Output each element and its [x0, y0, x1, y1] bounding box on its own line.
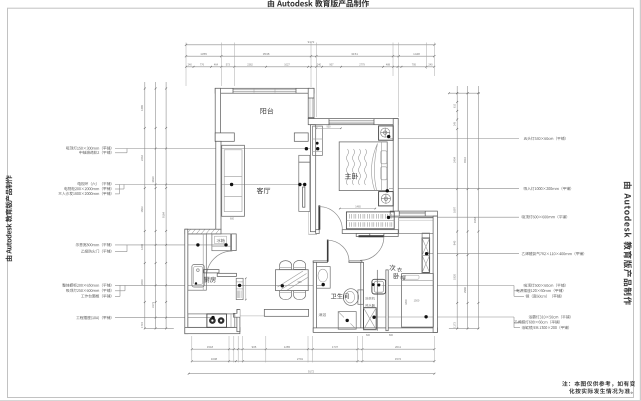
dining chairs — [280, 261, 292, 270]
window: second bedroom top — [399, 211, 425, 213]
svg-text:900: 900 — [327, 125, 332, 128]
svg-text:907: 907 — [329, 63, 334, 66]
wall: bathroom right — [361, 262, 364, 330]
bottom dimension row 3 overall — [189, 373, 435, 375]
svg-text:2011: 2011 — [395, 345, 401, 349]
wall: bathroom left — [313, 261, 316, 332]
right top mini dimension — [449, 92, 480, 94]
stove cooktop — [207, 314, 227, 327]
living room label 客厅 — [257, 187, 270, 193]
svg-text:1518: 1518 — [207, 345, 214, 349]
second bedroom labels 次卧/衣帽 — [389, 265, 395, 271]
svg-text:1500: 1500 — [414, 299, 420, 303]
door leaf: master bedroom door — [318, 205, 320, 229]
svg-text:2362: 2362 — [247, 63, 253, 66]
wall: second bedroom right — [433, 216, 437, 332]
hall cabinet (between kitchen and dining) — [236, 278, 243, 299]
kitchen label 厨房 — [204, 277, 216, 283]
pillows master bed — [381, 151, 387, 164]
door arc: corridor entry door — [360, 237, 384, 261]
left annotation labels — [66, 146, 111, 150]
wardrobe in master bedroom — [346, 212, 394, 229]
bathroom vanity sink — [317, 267, 331, 289]
svg-text:240: 240 — [188, 63, 193, 66]
svg-text:3151: 3151 — [351, 52, 358, 56]
svg-text:1027: 1027 — [284, 63, 290, 66]
svg-text:1465: 1465 — [355, 205, 361, 208]
svg-text:464: 464 — [214, 63, 219, 66]
fridge — [212, 234, 231, 251]
niche labels — [365, 297, 374, 300]
top dimension extension lines — [185, 43, 187, 87]
wall: second bedroom left — [386, 270, 388, 331]
svg-text:4510: 4510 — [463, 157, 467, 163]
svg-text:2980: 2980 — [463, 287, 467, 293]
blanket fold line — [372, 144, 378, 191]
kitchen counter — [188, 234, 207, 290]
watermark top: Autodesk education banner — [268, 0, 369, 7]
top dimension row 2 — [186, 66, 435, 68]
wall: kitchen left — [185, 229, 188, 334]
wall: master bottom — [342, 230, 398, 234]
wall: entry left jamb step — [234, 310, 240, 318]
shower area — [338, 312, 356, 330]
svg-text:240: 240 — [317, 63, 322, 66]
svg-text:3538: 3538 — [263, 52, 270, 56]
wardrobe column second bedroom — [422, 233, 430, 238]
wardrobe width dimension — [340, 208, 376, 210]
kitchen sliding door panels — [204, 270, 219, 273]
kitchen door arc — [207, 251, 233, 277]
ceiling light dots at living/master divider — [305, 147, 308, 150]
svg-text:600: 600 — [230, 218, 235, 221]
sofa (three-seat) in living room — [222, 145, 245, 216]
washing machine X-box — [364, 308, 377, 330]
svg-text:9164: 9164 — [161, 212, 165, 218]
dining table — [276, 270, 309, 291]
window: master bedroom top — [329, 119, 374, 121]
svg-text:776: 776 — [200, 63, 205, 66]
leader crossing ticks on left chains — [155, 148, 157, 150]
svg-text:1737: 1737 — [332, 345, 339, 349]
blanket wave pattern — [347, 149, 349, 185]
wall: kitchen right upper (beside fridge) — [232, 234, 237, 251]
wall: balcony left — [215, 88, 220, 141]
svg-text:1173: 1173 — [453, 322, 457, 328]
note text line 1 — [562, 381, 635, 387]
master bedroom label 主卧 — [345, 173, 358, 179]
toilet — [358, 290, 363, 304]
svg-text:9172: 9172 — [308, 369, 315, 373]
entry threshold line — [240, 315, 264, 317]
wall: bottom of bathroom/niche/second bedroom — [313, 328, 437, 333]
TV cabinet — [299, 162, 310, 211]
door arc: master bedroom door — [319, 207, 342, 230]
bottom dimension row 1 — [192, 348, 435, 350]
svg-text:1448: 1448 — [413, 52, 420, 56]
note text line 2 — [569, 388, 632, 393]
wall: master bedroom top — [308, 119, 398, 125]
wall: kitchen right lower — [237, 310, 240, 332]
left vertical dimension chains — [144, 82, 146, 328]
bottom dimension row 2 — [192, 360, 435, 362]
left annotation leader lines — [115, 148, 318, 150]
svg-text:1285: 1285 — [284, 345, 291, 349]
svg-text:1920: 1920 — [453, 274, 457, 280]
entry cabinet in master bedroom (by divider) — [313, 126, 323, 155]
bay window seat second bedroom — [399, 218, 434, 234]
top dimension row 1 — [186, 55, 435, 57]
nightstand with lamp (bottom) master bedroom — [379, 192, 394, 206]
page right/bottom edge shade — [639, 0, 641, 401]
window: balcony right — [309, 98, 311, 118]
svg-text:1715: 1715 — [140, 322, 144, 328]
kitchen counter light dot — [196, 243, 199, 246]
bathroom label 卫生间 — [331, 293, 349, 299]
svg-text:3830: 3830 — [151, 176, 155, 182]
wall: master bottom left jamb — [316, 230, 320, 234]
wall: kitchen bottom — [185, 328, 240, 334]
wall: master bedroom / building right — [393, 119, 398, 212]
door leaf: corridor entry door — [359, 235, 384, 237]
svg-text:488: 488 — [386, 63, 391, 66]
watermark left edge (rotated) — [5, 175, 12, 261]
svg-text:573: 573 — [226, 63, 231, 66]
balcony label 阳台 — [260, 108, 273, 114]
right annotation labels — [524, 137, 566, 141]
svg-text:2242: 2242 — [140, 155, 144, 161]
wall: dining bottom band — [264, 309, 308, 316]
svg-text:248: 248 — [454, 121, 457, 126]
water heater box in niche — [372, 279, 386, 294]
svg-text:795: 795 — [412, 63, 417, 66]
svg-text:940: 940 — [453, 240, 457, 245]
wall: right pilaster at balcony opening — [294, 133, 308, 141]
svg-text:2791: 2791 — [297, 357, 304, 361]
wall: niche divider — [376, 270, 378, 331]
svg-text:2779: 2779 — [359, 63, 365, 66]
svg-text:1603: 1603 — [140, 206, 144, 212]
bottom dimension extension lines — [191, 336, 193, 362]
svg-text:1697: 1697 — [453, 207, 457, 213]
divider wall bottom cap — [308, 233, 317, 235]
svg-text:1355: 1355 — [200, 52, 207, 56]
shower label 淋浴 — [319, 313, 326, 317]
right annotation leader lines — [390, 138, 519, 140]
svg-text:2404: 2404 — [453, 157, 457, 163]
svg-text:1200: 1200 — [140, 244, 144, 250]
bed second bedroom — [402, 274, 434, 328]
svg-text:1800: 1800 — [405, 299, 408, 305]
nightstand with lamp (top) master bedroom — [379, 126, 394, 140]
door arc: bathroom door — [328, 240, 349, 261]
svg-text:900: 900 — [298, 282, 303, 284]
svg-text:905: 905 — [252, 345, 257, 349]
wall: left pilaster at balcony opening — [215, 133, 234, 141]
kitchen bottom counter — [188, 314, 235, 327]
wall: kitchen top band with hatch — [185, 229, 221, 234]
svg-text:1485: 1485 — [140, 105, 144, 111]
wall: corridor band left of entry door — [356, 234, 370, 237]
wall: balcony right — [308, 88, 314, 118]
wall: living-master divider — [310, 125, 315, 232]
sofa ceiling light dot — [230, 183, 233, 186]
door leaf: bathroom door — [327, 240, 329, 262]
svg-text:240: 240 — [428, 63, 433, 66]
wall: second bedroom top — [390, 211, 437, 216]
svg-text:600: 600 — [366, 334, 371, 337]
svg-text:1450: 1450 — [140, 279, 144, 285]
svg-text:1572: 1572 — [395, 357, 402, 361]
top dimension row overall 9172 — [186, 44, 435, 46]
right vertical dimension chains — [456, 86, 458, 329]
kitchen sink — [192, 265, 204, 287]
TV cabinet top shelf — [299, 155, 310, 162]
wall: corridor band right of entry door — [384, 234, 398, 237]
svg-text:3173: 3173 — [151, 302, 155, 308]
bed in master bedroom — [339, 142, 387, 191]
svg-text:1608: 1608 — [211, 357, 218, 361]
TV wall dots — [298, 183, 301, 186]
TV set — [303, 187, 305, 207]
watermark right edge (rotated) — [624, 182, 632, 305]
wall: bathroom top right stub — [349, 261, 362, 263]
wall: bathroom top left segment — [313, 261, 327, 263]
svg-text:800: 800 — [389, 334, 394, 337]
wall: balcony top — [215, 88, 314, 93]
window: balcony top — [233, 89, 296, 91]
svg-text:610: 610 — [454, 103, 457, 108]
wall: living room left — [216, 141, 221, 229]
